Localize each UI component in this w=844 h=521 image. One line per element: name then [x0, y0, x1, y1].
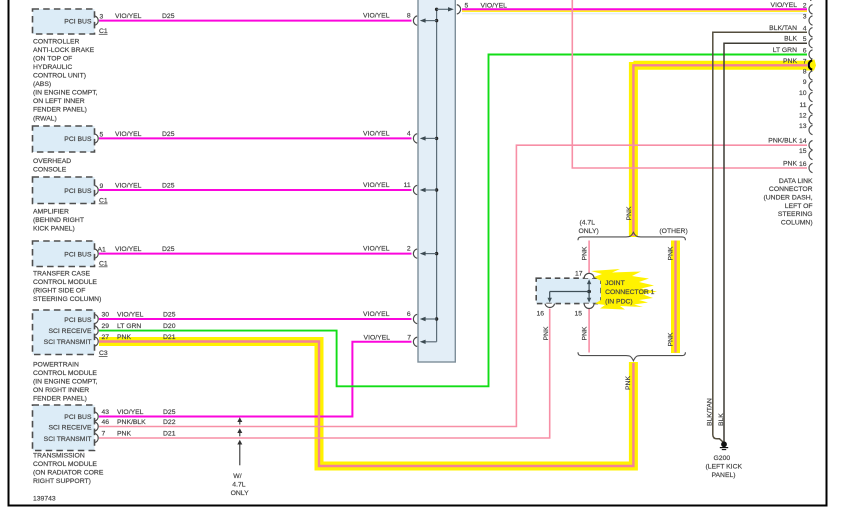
wire VIO/YEL D25 transmission control module pin 43 to bus pin 7	[99, 334, 412, 416]
wire PNK 4.7L branch from brace to joint connector pin 17	[588, 241, 590, 277]
svg-text:JOINT: JOINT	[605, 280, 625, 287]
data link connector name label	[764, 178, 814, 227]
svg-text:7: 7	[102, 431, 106, 438]
bus pin 7	[407, 334, 436, 346]
svg-text:D25: D25	[162, 183, 175, 190]
svg-text:VIO/YEL: VIO/YEL	[481, 3, 508, 10]
ground G200 (left kick panel)	[706, 441, 743, 478]
svg-text:29: 29	[102, 323, 110, 330]
svg-text:139743: 139743	[33, 496, 56, 503]
svg-text:CONSOLE: CONSOLE	[33, 166, 67, 173]
svg-text:VIO/YEL: VIO/YEL	[115, 246, 142, 253]
svg-text:AMPLIFIER: AMPLIFIER	[33, 208, 69, 215]
highlighted wire PNK core: (OTHER) branch segment	[674, 241, 676, 353]
joint connector 1 (in PDC), pins 17/16/15	[536, 270, 601, 317]
svg-text:3: 3	[100, 14, 104, 21]
module: overhead console, pin 5	[33, 126, 104, 173]
svg-text:C1: C1	[99, 28, 108, 35]
svg-text:10: 10	[799, 90, 807, 97]
module: transfer case control module, connector C1, pin A1	[33, 241, 108, 303]
svg-text:(RIGHT SIDE OF: (RIGHT SIDE OF	[33, 288, 85, 295]
svg-text:SCI RECEIVE: SCI RECEIVE	[48, 328, 92, 335]
svg-text:D25: D25	[162, 13, 175, 20]
svg-text:G200: G200	[714, 455, 731, 462]
svg-text:PNK: PNK	[668, 332, 675, 346]
module: powertrain control module, connector C3, pins 30/29/27	[33, 310, 108, 403]
svg-text:C1: C1	[99, 197, 108, 204]
svg-text:C1: C1	[99, 260, 108, 267]
svg-text:(BEHIND RIGHT: (BEHIND RIGHT	[33, 217, 84, 224]
svg-text:16: 16	[799, 161, 807, 168]
svg-text:VIO/YEL: VIO/YEL	[363, 311, 390, 318]
svg-text:BLK/TAN: BLK/TAN	[769, 25, 797, 32]
svg-text:ON LEFT INNER: ON LEFT INNER	[33, 98, 85, 105]
svg-text:PNK/BLK: PNK/BLK	[768, 138, 797, 145]
svg-text:BLK: BLK	[784, 36, 797, 43]
wire PNK D21 transmission control module pin 7 to joint connector pin 16	[99, 309, 550, 438]
svg-text:VIO/YEL: VIO/YEL	[363, 13, 390, 20]
svg-text:D20: D20	[163, 323, 176, 330]
svg-text:PCI BUS: PCI BUS	[64, 136, 92, 143]
svg-text:TRANSFER CASE: TRANSFER CASE	[33, 270, 90, 277]
svg-text:11: 11	[799, 102, 806, 109]
svg-text:PNK/BLK: PNK/BLK	[117, 419, 146, 426]
svg-text:12: 12	[799, 113, 807, 120]
svg-text:A1: A1	[98, 247, 107, 254]
svg-text:(IN ENGINE COMPT,: (IN ENGINE COMPT,	[33, 379, 98, 386]
svg-text:VIO/YEL: VIO/YEL	[117, 312, 144, 319]
svg-text:OVERHEAD: OVERHEAD	[33, 158, 71, 165]
module: amplifier, connector C1, pin 9	[33, 177, 108, 232]
svg-text:D21: D21	[163, 431, 176, 438]
svg-text:RIGHT SUPPORT): RIGHT SUPPORT)	[33, 478, 91, 485]
svg-text:30: 30	[102, 312, 110, 319]
svg-text:3: 3	[803, 14, 807, 21]
bus pin 11	[404, 182, 439, 195]
svg-text:D21: D21	[163, 334, 176, 341]
svg-text:VIO/YEL: VIO/YEL	[363, 130, 390, 137]
module: transmission control module, pins 43/46/7	[33, 405, 104, 485]
wire VIO/YEL D25 amplifier pin 9 to bus pin 11	[99, 182, 412, 190]
highlighted wire PNK core: PCM pin 27 segment	[99, 334, 633, 466]
svg-text:PNK: PNK	[625, 376, 632, 390]
svg-text:4: 4	[407, 130, 411, 137]
bus pin 4	[407, 130, 438, 143]
svg-text:4.7L: 4.7L	[232, 481, 245, 488]
svg-text:C3: C3	[99, 350, 108, 357]
wire BLK data link connector pin 5 to ground G200	[724, 43, 807, 441]
svg-text:SCI TRANSMIT: SCI TRANSMIT	[44, 339, 92, 346]
wire BLK/TAN data link connector pin 4 to ground G200	[713, 32, 807, 442]
wire PNK joint connector pin 15 to bottom brace	[588, 309, 590, 353]
svg-text:PNK: PNK	[543, 326, 550, 340]
svg-text:14: 14	[799, 138, 807, 145]
svg-text:SCI RECEIVE: SCI RECEIVE	[48, 425, 92, 432]
svg-text:CONTROLLER: CONTROLLER	[33, 38, 80, 45]
svg-text:LEFT OF: LEFT OF	[785, 203, 813, 210]
svg-text:D25: D25	[162, 131, 175, 138]
svg-text:VIO/YEL: VIO/YEL	[363, 182, 390, 189]
svg-text:(RWAL): (RWAL)	[33, 115, 57, 122]
module: controller anti-lock brake, connector C1, pin 3	[33, 9, 108, 122]
svg-text:VIO/YEL: VIO/YEL	[115, 183, 142, 190]
bus connector body (PCI bus splice block)	[418, 0, 455, 362]
svg-text:PNK: PNK	[582, 246, 589, 260]
svg-text:ONLY: ONLY	[231, 490, 249, 497]
svg-text:6: 6	[407, 311, 411, 318]
svg-text:COLUMN): COLUMN)	[781, 219, 813, 226]
svg-text:D25: D25	[162, 246, 175, 253]
svg-text:LT GRN: LT GRN	[773, 47, 797, 54]
svg-text:15: 15	[799, 148, 807, 155]
svg-text:5: 5	[100, 131, 104, 138]
bus pin 2	[407, 246, 438, 259]
svg-text:BLK: BLK	[718, 413, 725, 426]
svg-text:VIO/YEL: VIO/YEL	[117, 409, 144, 416]
svg-text:HYDRAULIC: HYDRAULIC	[33, 64, 72, 71]
wire PNK from off-page to data link connector pin 16	[572, 0, 807, 168]
svg-text:6: 6	[803, 48, 807, 55]
brace: 4.7L ONLY / OTHER merge (bottom)	[578, 352, 685, 361]
svg-text:FENDER PANEL): FENDER PANEL)	[33, 396, 87, 403]
svg-text:PCI BUS: PCI BUS	[64, 251, 92, 258]
svg-text:VIO/YEL: VIO/YEL	[363, 246, 390, 253]
highlight blob over joint connector label	[591, 269, 657, 310]
svg-text:VIO/YEL: VIO/YEL	[115, 131, 142, 138]
svg-text:CONTROL MODULE: CONTROL MODULE	[33, 461, 97, 468]
svg-text:VIO/YEL: VIO/YEL	[115, 13, 142, 20]
svg-text:13: 13	[799, 123, 807, 130]
svg-text:D22: D22	[163, 419, 176, 426]
svg-text:(IN ENGINE COMPT,: (IN ENGINE COMPT,	[33, 90, 98, 97]
svg-text:PCI BUS: PCI BUS	[64, 317, 92, 324]
bus pin 5	[435, 3, 469, 15]
svg-text:(IN PDC): (IN PDC)	[605, 298, 633, 305]
svg-text:POWERTRAIN: POWERTRAIN	[33, 361, 79, 368]
svg-text:5: 5	[803, 36, 807, 43]
svg-text:CONTROL MODULE: CONTROL MODULE	[33, 279, 97, 286]
data link connector pins 2-16	[809, 0, 813, 173]
svg-text:DATA LINK: DATA LINK	[779, 178, 813, 185]
svg-text:7: 7	[803, 58, 807, 65]
svg-text:46: 46	[102, 419, 110, 426]
DLC wire labels	[768, 2, 797, 168]
svg-text:FENDER PANEL): FENDER PANEL)	[33, 107, 87, 114]
DLC pin numbers	[799, 2, 807, 168]
svg-text:7: 7	[407, 334, 411, 341]
svg-text:9: 9	[803, 79, 807, 86]
bus pin 8	[407, 13, 438, 26]
svg-text:W/: W/	[233, 473, 241, 480]
highlighted wire PNK core: DLC pin 7 segment	[633, 65, 807, 236]
svg-text:(4.7L: (4.7L	[580, 219, 596, 226]
svg-text:(OTHER): (OTHER)	[659, 228, 687, 235]
wire VIO/YEL D25 ABS pin 3 to bus pin 8	[99, 13, 412, 21]
brace: 4.7L ONLY / OTHER split (top)	[578, 219, 688, 240]
svg-text:(ON TOP OF: (ON TOP OF	[33, 55, 72, 62]
svg-text:27: 27	[102, 334, 110, 341]
svg-text:ANTI-LOCK BRAKE: ANTI-LOCK BRAKE	[33, 47, 95, 54]
svg-text:PNK: PNK	[117, 334, 131, 341]
svg-text:LT GRN: LT GRN	[117, 323, 141, 330]
svg-text:11: 11	[404, 182, 411, 189]
svg-text:PANEL): PANEL)	[712, 472, 736, 479]
svg-text:ON RIGHT INNER: ON RIGHT INNER	[33, 387, 89, 394]
svg-text:(ON RADIATOR CORE: (ON RADIATOR CORE	[33, 470, 104, 477]
wire VIO/YEL from bus pin 5 to data link connector pin 2 (highlighted)	[462, 3, 807, 14]
svg-text:CONNECTOR 1: CONNECTOR 1	[605, 289, 655, 296]
svg-text:D25: D25	[163, 312, 176, 319]
svg-text:ONLY): ONLY)	[579, 228, 599, 235]
svg-text:PCI BUS: PCI BUS	[64, 18, 92, 25]
svg-text:STEERING COLUMN): STEERING COLUMN)	[33, 296, 101, 303]
svg-text:PNK: PNK	[626, 206, 633, 220]
svg-text:9: 9	[100, 183, 104, 190]
svg-text:CONTROL UNIT): CONTROL UNIT)	[33, 73, 86, 80]
wire VIO/YEL D25 transfer case control module pin A1 to bus pin 2	[99, 246, 412, 254]
svg-text:(LEFT KICK: (LEFT KICK	[706, 463, 743, 470]
svg-text:KICK PANEL): KICK PANEL)	[33, 225, 75, 232]
highlighted DLC pin 7 terminal	[806, 60, 817, 71]
svg-text:BLK/TAN: BLK/TAN	[706, 398, 713, 426]
svg-text:PNK: PNK	[582, 326, 589, 340]
svg-text:VIO/YEL: VIO/YEL	[364, 334, 391, 341]
svg-text:TRANSMISSION: TRANSMISSION	[33, 453, 85, 460]
svg-text:16: 16	[537, 310, 545, 317]
svg-text:PNK: PNK	[117, 431, 131, 438]
wire PNK/BLK D22 transmission control module pin 46 to data link connector pin 14	[99, 145, 807, 426]
svg-text:CONTROL MODULE: CONTROL MODULE	[33, 370, 97, 377]
svg-text:PNK: PNK	[783, 161, 797, 168]
svg-text:(UNDER DASH,: (UNDER DASH,	[764, 195, 813, 202]
svg-text:STEERING: STEERING	[778, 211, 813, 218]
svg-text:8: 8	[407, 13, 411, 20]
svg-text:PNK: PNK	[783, 58, 797, 65]
svg-text:SCI TRANSMIT: SCI TRANSMIT	[44, 436, 92, 443]
wire LT GRN D20 powertrain control module pin 29 to data link connector pin 6	[99, 55, 807, 387]
note arrows: W/ 4.7L ONLY pointing at TCM wires	[231, 417, 249, 497]
svg-text:PNK: PNK	[668, 246, 675, 260]
wire VIO/YEL D25 powertrain control module pin 30 to bus pin 6	[99, 311, 412, 319]
svg-text:43: 43	[102, 409, 110, 416]
svg-text:PCI BUS: PCI BUS	[64, 414, 92, 421]
svg-text:D25: D25	[163, 409, 176, 416]
svg-text:CONNECTOR: CONNECTOR	[769, 186, 813, 193]
svg-text:8: 8	[803, 69, 807, 76]
svg-text:15: 15	[575, 310, 583, 317]
svg-text:(ABS): (ABS)	[33, 81, 51, 88]
highlighted circuit: yellow band PCM pin 27 to DLC pin 7	[99, 62, 807, 466]
svg-text:4: 4	[803, 25, 807, 32]
wire VIO/YEL D25 overhead console pin 5 to bus pin 4	[99, 130, 412, 138]
svg-text:17: 17	[575, 270, 583, 277]
svg-text:2: 2	[407, 246, 411, 253]
svg-text:PCI BUS: PCI BUS	[64, 188, 92, 195]
svg-text:VIO/YEL: VIO/YEL	[771, 2, 798, 9]
svg-text:2: 2	[803, 2, 807, 9]
bus pin 6	[407, 311, 438, 324]
